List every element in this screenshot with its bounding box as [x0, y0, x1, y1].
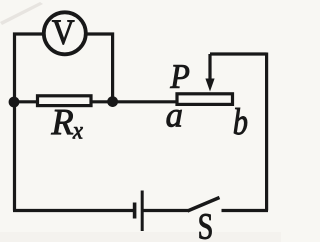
slider arrow of rheostat P — [208, 54, 211, 80]
wire: main horizontal from left node to resistor — [14, 100, 37, 103]
voltmeter V — [44, 12, 86, 54]
label Rx — [51, 110, 73, 134]
node: left junction dot — [9, 97, 20, 108]
battery negative plate (short) — [133, 203, 137, 219]
label a — [167, 110, 182, 127]
wire: bottom left run to battery — [13, 209, 133, 212]
wire: slider top wire to right rail — [210, 52, 267, 55]
wire: resistor to right node and on to rheostat track — [91, 100, 177, 103]
wire: voltmeter loop top-right horizontal and right drop — [87, 34, 113, 102]
wire: switch right contact to bottom-right corner — [222, 209, 269, 212]
wire: voltmeter loop top-left horizontal and left drop — [15, 34, 44, 103]
label b — [234, 108, 247, 135]
node: right junction dot — [107, 96, 118, 107]
resistor Rx — [38, 96, 92, 106]
label S — [200, 214, 212, 239]
wire: battery to switch pivot — [144, 209, 189, 212]
battery positive plate (long) — [141, 191, 144, 232]
wire: right vertical rail — [265, 53, 268, 211]
label P — [170, 65, 189, 88]
switch S lever — [188, 198, 220, 212]
wire: left vertical main branch — [13, 101, 16, 211]
rheostat track (potentiometer body) — [177, 94, 233, 105]
